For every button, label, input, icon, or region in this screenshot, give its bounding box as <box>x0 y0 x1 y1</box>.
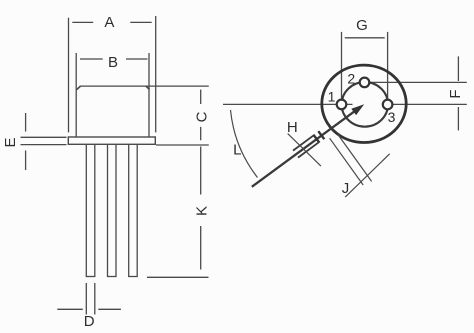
inner circle <box>342 82 388 127</box>
svg-text:1: 1 <box>328 89 336 105</box>
extension line flange bottom right <box>156 144 209 146</box>
pin 2 <box>360 78 370 88</box>
dimension A extension line right <box>155 16 157 132</box>
dimension D extension line left <box>85 283 87 315</box>
dimension D extension line right <box>94 283 96 315</box>
can body right wall <box>148 53 150 137</box>
flange <box>68 137 155 144</box>
tab nub bar inner <box>318 131 324 139</box>
can top left chamfer <box>77 86 81 90</box>
tab pointer arrowhead <box>351 104 364 115</box>
svg-text:B: B <box>108 54 118 71</box>
leg 1 <box>86 144 95 276</box>
dimension B line <box>80 58 148 60</box>
dimension G line <box>345 37 385 39</box>
leg 2 <box>108 144 117 276</box>
dimension A line <box>72 21 151 23</box>
dimension K line <box>200 147 202 270</box>
dimension D line <box>57 308 121 310</box>
can top right chamfer <box>146 86 150 90</box>
horizontal centerline right <box>387 103 467 105</box>
extension line leg bottom <box>147 276 209 278</box>
svg-text:L: L <box>233 142 241 159</box>
svg-text:D: D <box>84 313 95 330</box>
dimension F line <box>457 56 459 130</box>
svg-text:F: F <box>447 89 464 98</box>
pin2 level extension line <box>365 81 467 83</box>
svg-text:J: J <box>342 180 350 197</box>
pin 3 <box>383 100 393 110</box>
outer circle (can outline, bottom view) <box>322 65 406 142</box>
svg-text:H: H <box>287 119 298 136</box>
dimension H line <box>288 134 321 167</box>
pin 1 <box>337 100 347 110</box>
svg-text:G: G <box>356 17 368 34</box>
angle L arc <box>231 110 258 178</box>
dimension E extension line bottom <box>21 144 67 146</box>
svg-text:3: 3 <box>388 109 396 125</box>
dimension E line <box>25 113 27 170</box>
dimension J extension line outer <box>330 138 364 185</box>
dimension E extension line top <box>21 136 67 138</box>
dimension H extension edge upper <box>293 135 314 150</box>
svg-text:K: K <box>194 206 211 216</box>
dimension G extension line left <box>341 32 343 100</box>
tab leader line <box>252 111 355 187</box>
dimension A extension line left <box>68 18 70 133</box>
svg-text:C: C <box>194 111 211 122</box>
dimension J extension line inner <box>338 135 372 182</box>
dimension J line <box>345 154 390 197</box>
horizontal centerline left <box>223 103 353 105</box>
svg-text:A: A <box>104 14 114 31</box>
leg 3 <box>129 144 138 276</box>
dimension G extension line right <box>387 32 389 101</box>
tab nub bar outer <box>313 135 319 143</box>
can top line with C extension <box>80 85 209 87</box>
dimension C line <box>200 90 202 141</box>
can body left wall <box>75 53 77 137</box>
svg-text:2: 2 <box>347 71 355 87</box>
svg-text:E: E <box>2 137 19 147</box>
dimension H extension edge lower <box>298 142 319 157</box>
